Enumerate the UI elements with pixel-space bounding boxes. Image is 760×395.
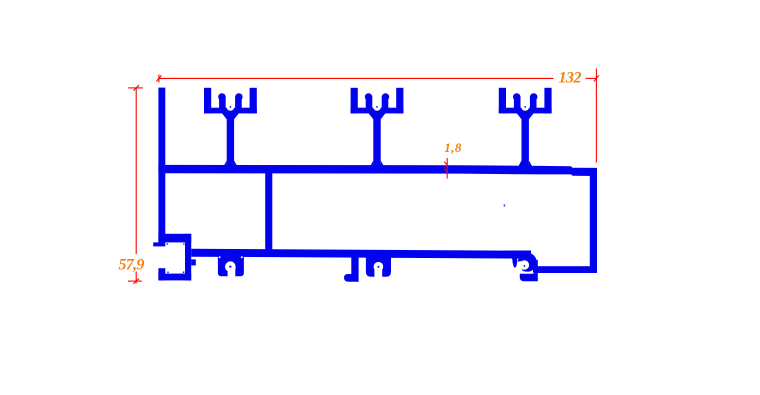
svg-text:132: 132 [559,69,582,86]
svg-text:1,8: 1,8 [444,140,462,155]
svg-text:57,9: 57,9 [119,256,145,273]
